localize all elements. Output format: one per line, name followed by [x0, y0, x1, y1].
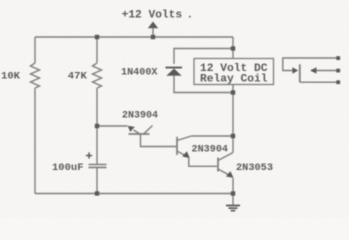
junction dot Q2 collector node: [231, 134, 235, 138]
relay contact top line: [283, 58, 338, 71]
relay contact pole bar: [299, 64, 301, 82]
wire top rail: [35, 36, 233, 38]
resistor R2 47K: [93, 63, 102, 88]
capacitor C1 plus sign: [86, 155, 92, 157]
wire relay drop from rail: [232, 37, 234, 59]
junction dot diode top: [231, 46, 235, 50]
wire Q2 emitter to Q3 base: [189, 158, 217, 166]
node Q1 emitter wire: [97, 125, 128, 127]
wire +12V stem: [152, 28, 154, 37]
wire 47K branch top: [96, 37, 98, 63]
wire Q2 collector to relay node: [191, 135, 233, 137]
transistor Q3 emitter diagonal: [218, 169, 230, 176]
relay contact arrow left head: [311, 67, 317, 74]
transistor Q3 2N3053 bar: [217, 158, 219, 172]
capacitor C1 plates: [89, 164, 107, 166]
relay K1 coil box: [194, 59, 274, 85]
wire Q1 base to Q2 base: [141, 134, 177, 147]
wire left branch with 10K: [34, 37, 36, 63]
wire diode bottom link: [174, 76, 233, 93]
relay contact middle line: [311, 70, 338, 72]
junction dot diode bottom: [231, 90, 235, 94]
transistor Q2 collector diagonal: [177, 136, 191, 141]
transistor Q1 collector diagonal: [144, 126, 153, 135]
transistor Q1 emitter arrowhead: [128, 126, 135, 132]
ground symbol: [226, 205, 240, 207]
transistor Q1 emitter diagonal: [134, 130, 141, 134]
wire Q3 emitter to ground: [232, 178, 234, 205]
wire left branch lower: [34, 88, 36, 194]
transistor Q3 emitter arrowhead: [226, 171, 234, 178]
relay contact arrow right head: [292, 67, 298, 74]
diode D1 1N400X triangle: [166, 69, 181, 76]
relay contact terminal square bottom: [336, 80, 340, 84]
relay contact bottom line: [300, 81, 338, 83]
transistor Q2 2N3904 bar: [176, 137, 178, 155]
diode D1 1N400X cathode bar: [166, 67, 183, 69]
wire 47K to cap: [96, 88, 98, 164]
junction dot arrow base: [151, 35, 155, 39]
wire cap to bottom: [96, 167, 98, 193]
relay contact terminal square middle: [336, 69, 340, 73]
wire diode top link: [174, 49, 233, 65]
junction dot 47K top: [95, 35, 99, 39]
wire bottom rail: [35, 193, 233, 195]
junction dot cap bottom: [95, 191, 99, 195]
transistor Q3 collector diagonal: [218, 153, 233, 161]
resistor R1 10K: [31, 63, 40, 88]
junction dot Q1 emitter node: [95, 124, 99, 128]
transistor Q2 emitter diagonal: [177, 151, 187, 156]
junction dot ground node: [231, 191, 235, 195]
transistor Q2 emitter arrowhead: [182, 151, 190, 158]
power arrow +12V head: [148, 22, 158, 29]
relay contact terminal square top: [336, 56, 340, 60]
transistor Q1 2N3904 bar: [129, 133, 150, 135]
wire relay box to collector node: [232, 85, 234, 153]
